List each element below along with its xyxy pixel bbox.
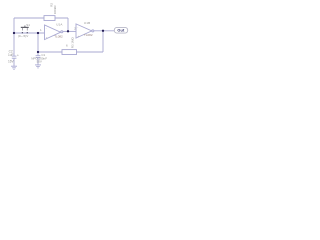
svg-text:+: + xyxy=(77,34,79,38)
svg-text:16V: 16V xyxy=(8,59,15,63)
svg-text:U1B: U1B xyxy=(84,21,90,25)
svg-text:100kΩ: 100kΩ xyxy=(53,5,57,15)
svg-text:(0~-5)V: (0~-5)V xyxy=(18,34,29,38)
svg-text:Out: Out xyxy=(117,28,125,32)
svg-text:S1: S1 xyxy=(26,23,30,27)
svg-text:-: - xyxy=(77,26,78,30)
svg-text:50V: 50V xyxy=(37,60,42,64)
svg-text:+: + xyxy=(46,35,48,39)
svg-text:1uF: 1uF xyxy=(8,53,14,57)
svg-text:TL082: TL082 xyxy=(54,34,63,38)
svg-text:+: + xyxy=(17,53,19,57)
svg-text:TL082: TL082 xyxy=(84,33,93,37)
svg-text:1: 1 xyxy=(40,28,42,32)
svg-text:-: - xyxy=(46,27,47,31)
svg-text:U1A: U1A xyxy=(56,23,62,27)
svg-text:6: 6 xyxy=(66,44,68,48)
svg-text:R3 1MΩ: R3 1MΩ xyxy=(70,36,74,48)
